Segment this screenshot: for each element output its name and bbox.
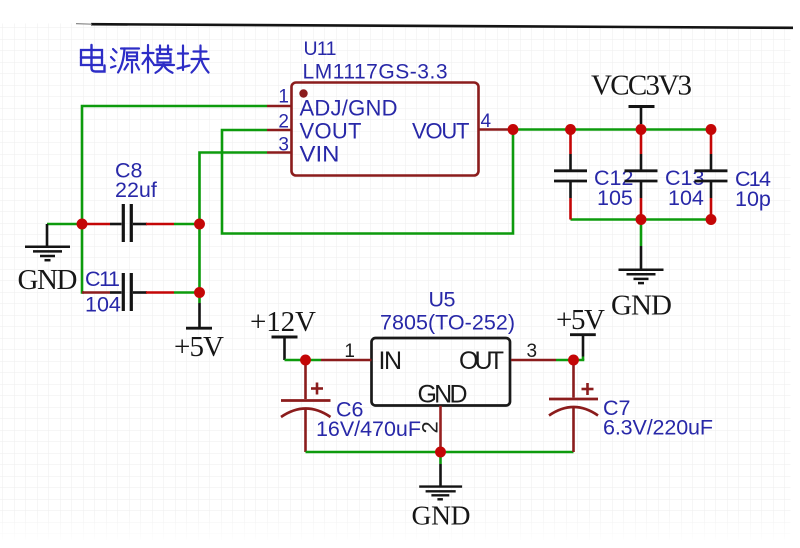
junction dot C11 right [194,287,205,298]
wire [222,130,513,234]
svg-text:C11: C11 [85,267,120,291]
svg-text:7805(TO-252): 7805(TO-252) [380,311,515,335]
svg-text:+5V: +5V [174,331,224,363]
ground symbol right [611,220,672,322]
svg-text:4: 4 [481,111,492,132]
power +5V left [174,293,224,364]
capacitor C12 [554,134,633,220]
power VCC3V3 [591,70,692,125]
svg-text:ADJ/GND: ADJ/GND [300,96,398,121]
pin 2 stub (GND) [439,406,442,452]
pin 1 stub [321,359,372,362]
junction dot C8 right [194,219,205,230]
pin 3 stub [511,359,556,362]
wire +12V to pin 1 [285,359,322,362]
svg-text:GND: GND [418,381,468,409]
junction dot pin1 U5 [300,355,311,366]
junction dot C14 bottom [706,214,717,225]
svg-text:2: 2 [418,421,443,433]
junction dot GND U5 [435,447,446,458]
wire net pin1 top [82,106,267,224]
svg-text:OUT: OUT [459,347,504,375]
svg-text:1: 1 [344,341,355,362]
sheet top border line [91,24,793,28]
hanzi 块 [178,46,209,73]
svg-text:16V/470uF: 16V/470uF [316,417,421,441]
pin 1 stub [267,105,292,108]
wire junction column left down to C11 [82,224,84,293]
wire pin 3 to +5V [556,359,584,362]
svg-text:U5: U5 [429,288,456,312]
regulator U5 box [321,288,556,453]
svg-text:3: 3 [278,135,289,156]
svg-text:IN: IN [379,347,403,375]
svg-text:VOUT: VOUT [300,119,362,144]
svg-text:GND: GND [18,264,78,296]
pin 2 stub [267,129,292,132]
svg-text:22uf: 22uf [115,178,157,202]
ground symbol left [25,247,70,260]
capacitor C7 polarized [549,360,598,452]
regulator U11 box [267,38,508,176]
svg-text:1: 1 [278,87,289,108]
junction dot C12 top [565,124,576,135]
capacitor C11 [82,267,174,317]
svg-text:LM1117GS-3.3: LM1117GS-3.3 [303,61,448,84]
junction wire to ground (left) [18,224,83,296]
junction dot C14 top [706,124,717,135]
junction dot C8 left [77,219,88,230]
junction dot pin3 U5 [568,355,579,366]
wire top [513,128,711,131]
title 电源模块 (hand-drawn glyphs) [81,45,209,73]
hanzi 电 [81,45,105,72]
svg-text:VOUT: VOUT [412,119,470,144]
wire [200,153,268,225]
capacitor C8 [87,159,174,243]
svg-text:GND: GND [412,500,471,531]
capacitor C14 [695,134,772,220]
svg-text:GND: GND [611,290,672,322]
wire junction column right [198,224,201,293]
wire [82,106,267,224]
svg-text:VCC3V3: VCC3V3 [591,70,692,102]
wire [47,223,82,226]
node VOUT rail 3V3 [513,130,711,220]
svg-text:10p: 10p [735,187,771,211]
wire C11 right to junction [174,291,200,294]
wire net pin2 VOUT loop [222,130,513,234]
wire C8 right to junction [174,223,200,226]
capacitor C6 polarized [281,360,331,452]
junction dot C13 top [636,124,647,135]
power +12V [250,306,316,360]
wire net pin3 VIN [200,153,268,225]
svg-text:105: 105 [597,186,633,210]
power +5V right [556,304,605,360]
svg-text:+5V: +5V [556,304,605,336]
svg-text:104: 104 [668,186,704,210]
junction dot C13 bottom [636,214,647,225]
capacitor C13 [625,134,705,220]
hanzi 模 [143,45,175,73]
svg-text:6.3V/220uF: 6.3V/220uF [603,416,713,440]
svg-text:2: 2 [278,112,289,133]
svg-text:+12V: +12V [250,306,316,338]
svg-text:U11: U11 [304,38,337,60]
svg-text:VIN: VIN [300,142,340,167]
junction dot pin4 [508,124,519,135]
pin 4 stub [479,128,509,131]
pin 3 stub [267,151,292,154]
hanzi 源 [111,49,139,73]
wire bottom [571,218,712,221]
svg-text:3: 3 [527,341,538,362]
ground symbol bottom [412,452,471,531]
svg-text:104: 104 [85,293,121,317]
wire bottom rail [306,451,574,454]
